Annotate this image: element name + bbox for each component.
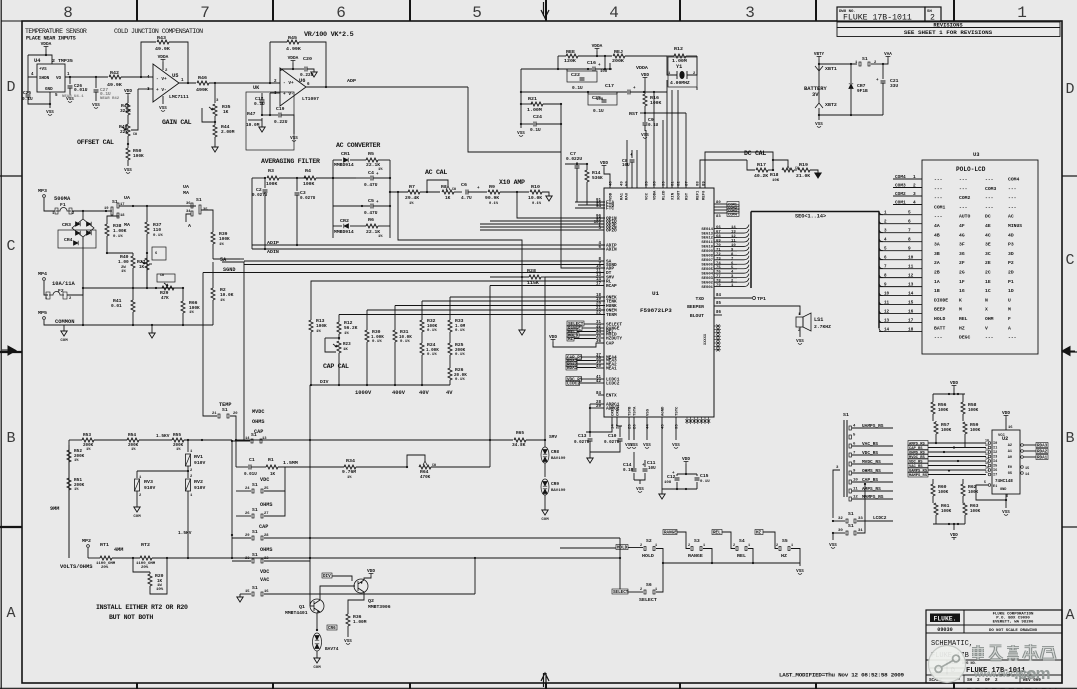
svg-text:DIV: DIV: [323, 574, 331, 579]
svg-text:TSTC: TSTC: [676, 406, 680, 416]
svg-text:OP2O: OP2O: [606, 228, 617, 234]
svg-text:C13: C13: [578, 433, 587, 439]
svg-text:SEG09: SEG09: [701, 250, 713, 254]
svg-text:VDC: VDC: [260, 569, 269, 575]
svg-text:ADIN: ADIN: [267, 249, 279, 255]
svg-text:TP1: TP1: [757, 296, 766, 302]
wire cap row to right: [310, 537, 620, 539]
capacitor C2: [264, 178, 266, 188]
svg-text:24: 24: [245, 487, 250, 491]
svg-text:S1: S1: [252, 482, 258, 488]
svg-text:33: 33: [858, 517, 863, 521]
svg-text:1K: 1K: [270, 472, 276, 477]
svg-text:26: 26: [245, 512, 250, 516]
svg-text:RCAP: RCAP: [606, 283, 617, 289]
svg-text:S1: S1: [862, 56, 868, 62]
U1 right side NC pins crossed: [714, 325, 721, 327]
svg-text:21: 21: [212, 412, 217, 416]
capacitor C22 box: [567, 71, 597, 82]
svg-text:U5: U5: [172, 72, 179, 79]
svg-text:SELECT: SELECT: [613, 590, 629, 595]
svg-text:324K: 324K: [120, 108, 131, 114]
svg-text:10: 10: [884, 292, 890, 297]
S1 pin 11 AMPS_RS: [849, 489, 851, 493]
svg-text:---: ---: [985, 336, 994, 341]
resistor R58: [962, 394, 964, 402]
svg-text:17: 17: [985, 470, 989, 474]
svg-text:1%: 1%: [347, 476, 352, 480]
svg-text:47K: 47K: [161, 296, 169, 301]
svg-text:BLOUT: BLOUT: [690, 313, 704, 319]
wire SA SGND route: [240, 258, 244, 260]
svg-text:FLUKE 17B-1011: FLUKE 17B-1011: [843, 14, 912, 23]
svg-text:VSS: VSS: [1002, 510, 1010, 515]
resistor R66: [182, 288, 184, 301]
vertical line x545 SMV: [544, 277, 546, 440]
svg-text:DIODE: DIODE: [934, 297, 948, 303]
svg-text:13: 13: [985, 452, 989, 456]
ground under rail 2: [151, 325, 153, 333]
svg-text:0.027U: 0.027U: [300, 196, 316, 201]
svg-text:VCC: VCC: [646, 192, 650, 200]
U1 pin HOLD with net label: [596, 333, 604, 335]
svg-text:2D: 2D: [1008, 270, 1014, 276]
svg-text:S1: S1: [252, 507, 258, 513]
svg-text:CR2: CR2: [340, 218, 349, 224]
svg-text:2C: 2C: [985, 270, 991, 276]
svg-text:910V: 910V: [194, 485, 205, 491]
svg-text:14: 14: [884, 328, 890, 333]
ground COM under CR6: [314, 658, 320, 663]
net line VDC_RS to U2: [908, 459, 928, 464]
top margin ruler line: [1, 20, 1062, 22]
svg-text:COM1: COM1: [934, 204, 945, 210]
SEG bus staircase left: [737, 225, 749, 229]
U1 pin ADIP: [600, 244, 604, 246]
svg-text:100K: 100K: [938, 408, 949, 413]
svg-text:MMBT4401: MMBT4401: [285, 610, 308, 616]
svg-text:100K: 100K: [968, 408, 979, 413]
svg-text:CW: CW: [133, 132, 137, 136]
svg-text:0.1U: 0.1U: [530, 127, 541, 133]
svg-text:5: 5: [55, 93, 58, 98]
ground COM under RV3: [134, 507, 140, 512]
junction dots on net lines: [935, 442, 937, 444]
svg-text:71: 71: [716, 248, 721, 252]
svg-text:6: 6: [884, 256, 887, 261]
svg-text:100K: 100K: [303, 181, 314, 187]
svg-text:13: 13: [908, 282, 914, 288]
svg-text:C19: C19: [276, 106, 285, 112]
wire 10A row: [83, 287, 183, 289]
svg-text:MVDC: MVDC: [252, 409, 264, 415]
U2 input pins: [988, 442, 991, 445]
svg-text:RA1: RA1: [621, 192, 625, 200]
svg-text:500MA: 500MA: [54, 195, 71, 202]
resistor R34: [288, 466, 344, 468]
svg-text:0.1%: 0.1%: [455, 378, 465, 382]
svg-text:9.76M: 9.76M: [342, 469, 356, 475]
svg-text:1: 1: [748, 544, 750, 548]
svg-text:1: 1: [913, 174, 916, 180]
svg-text:0.01U: 0.01U: [244, 472, 257, 477]
svg-text:---: ---: [1008, 187, 1017, 192]
U1 pin COM2 net label: [714, 206, 727, 208]
svg-text:910V: 910V: [194, 460, 205, 466]
ground VSS after S5: [799, 563, 801, 566]
node U4 pin2: [45, 54, 47, 56]
svg-text:SEG11: SEG11: [701, 241, 713, 245]
svg-text:100K: 100K: [938, 490, 949, 495]
svg-text:2 TMP35: 2 TMP35: [52, 58, 73, 64]
wire Q1 base: [310, 605, 314, 607]
resistor R32: [421, 301, 423, 320]
svg-text:R12: R12: [674, 46, 683, 52]
svg-text:VSS: VSS: [796, 339, 804, 344]
svg-text:VSS: VSS: [643, 443, 651, 448]
U1 pin MEA2 with net label RDA2: [596, 363, 604, 365]
svg-text:RANGE: RANGE: [664, 531, 677, 536]
svg-text:A: A: [188, 223, 191, 229]
svg-text:COM4: COM4: [728, 213, 738, 217]
svg-text:B: B: [6, 430, 15, 447]
ic U2 74HC148 body: [992, 430, 1020, 494]
svg-text:TXD: TXD: [696, 296, 705, 302]
svg-text:GAIN CAL: GAIN CAL: [162, 118, 192, 126]
wire battery top: [819, 63, 857, 65]
svg-text:0.1%: 0.1%: [113, 235, 123, 239]
svg-text:---: ---: [985, 205, 994, 210]
svg-text:VAC: VAC: [260, 577, 269, 583]
svg-text:---: ---: [1008, 336, 1017, 341]
U1 pin ADPC2: [590, 407, 604, 409]
svg-text:R9: R9: [489, 184, 495, 190]
svg-text:---: ---: [985, 196, 994, 201]
svg-text:6: 6: [908, 219, 911, 225]
svg-text:D: D: [1065, 81, 1074, 98]
wire VDDA to U4 pin2: [46, 49, 52, 64]
svg-text:TENM: TENM: [606, 312, 617, 318]
svg-text:MMBD914: MMBD914: [334, 229, 354, 235]
svg-text:R3: R3: [268, 168, 274, 174]
svg-text:2E: 2E: [985, 260, 991, 266]
net line OHMS_RS to U2: [908, 450, 928, 455]
svg-text:36: 36: [186, 202, 191, 206]
svg-text:SEG02: SEG02: [701, 281, 713, 285]
terminal MP3: [43, 195, 46, 198]
ground in guard box: [261, 118, 263, 127]
svg-text:AGND: AGND: [662, 406, 666, 416]
svg-text:A0: A0: [1008, 456, 1012, 460]
resistor R16: [643, 94, 647, 106]
svg-text:CAP_RS: CAP_RS: [909, 447, 923, 451]
resistor REE: [558, 55, 566, 57]
svg-text:19: 19: [104, 207, 109, 211]
svg-text:SEG04: SEG04: [701, 272, 713, 276]
U3 SEG stub rows: [879, 214, 922, 216]
svg-text:HZ: HZ: [959, 325, 965, 331]
svg-text:8: 8: [908, 237, 911, 243]
svg-text:1%: 1%: [344, 332, 349, 336]
svg-text:SELECT: SELECT: [639, 597, 657, 603]
svg-text:14: 14: [985, 457, 989, 461]
svg-text:0.1%: 0.1%: [532, 202, 542, 206]
U1 pin LCDC1 with net label VDC_RS: [596, 378, 604, 380]
net line AMPS_RS to U2: [908, 441, 928, 446]
wire y438 long: [489, 439, 491, 441]
svg-text:SEG01: SEG01: [701, 286, 713, 290]
svg-text:GND: GND: [1000, 488, 1006, 492]
svg-text:AC CONVERTER: AC CONVERTER: [336, 141, 380, 149]
svg-text:DIV: DIV: [320, 379, 329, 385]
node on CAP_RS: [864, 483, 866, 485]
svg-text:VSS: VSS: [46, 110, 54, 115]
svg-text:100K: 100K: [970, 428, 981, 433]
wire Q1 collector: [320, 586, 355, 600]
net label RDA3 box: [1036, 443, 1048, 448]
U1 pin SMV: [545, 276, 604, 278]
S1 pin 12 MAMPS_RS: [849, 497, 851, 501]
svg-text:R7: R7: [409, 184, 415, 190]
ground COM under common rail: [63, 325, 65, 331]
svg-text:COMMON: COMMON: [55, 318, 75, 325]
diode CR2: [333, 225, 342, 227]
svg-text:49.9K: 49.9K: [155, 46, 170, 52]
svg-text:3C: 3C: [985, 251, 991, 257]
svg-text:10.0K: 10.0K: [528, 195, 542, 201]
svg-text:C10: C10: [608, 433, 617, 439]
svg-text:32: 32: [838, 517, 843, 521]
svg-text:V: V: [985, 325, 988, 331]
wire RST to U1: [685, 113, 687, 188]
svg-text:+VS: +VS: [39, 67, 47, 72]
svg-text:15: 15: [908, 300, 914, 306]
svg-text:SEG05: SEG05: [701, 268, 713, 272]
svg-text:R28: R28: [527, 268, 536, 274]
svg-text:SEG12: SEG12: [701, 237, 713, 241]
svg-text:D: D: [6, 79, 15, 96]
svg-text:1: 1: [1017, 4, 1027, 22]
resistor R33: [449, 297, 451, 320]
svg-text:VDDA: VDDA: [654, 190, 658, 200]
wire 9MM rail: [68, 440, 70, 558]
svg-text:4: 4: [147, 75, 150, 80]
svg-text:C15: C15: [700, 473, 709, 479]
svg-text:5: 5: [472, 4, 482, 22]
svg-text:35: 35: [596, 335, 601, 339]
svg-text:14: 14: [908, 291, 914, 297]
svg-text:12: 12: [985, 448, 989, 452]
svg-text:X: X: [985, 307, 988, 313]
svg-text:S6: S6: [646, 582, 652, 588]
svg-text:0.1%: 0.1%: [153, 234, 163, 238]
svg-text:---: ---: [959, 205, 968, 210]
svg-text:68: 68: [716, 235, 721, 239]
svg-text:R19: R19: [799, 162, 808, 168]
svg-text:1G: 1G: [959, 288, 965, 294]
U1 pin SGND: [244, 264, 604, 266]
svg-text:LMC7111: LMC7111: [169, 94, 189, 100]
svg-text:MA: MA: [124, 222, 130, 228]
U1 pin FTB: [578, 204, 604, 206]
svg-text:LS1: LS1: [814, 317, 823, 323]
svg-text:---: ---: [934, 336, 943, 341]
svg-text:HOLD: HOLD: [642, 553, 654, 559]
svg-text:0.1U: 0.1U: [22, 96, 33, 102]
svg-text:CW: CW: [160, 273, 164, 277]
svg-text:34.8K: 34.8K: [512, 442, 526, 448]
svg-text:72: 72: [716, 253, 721, 257]
svg-text:DO NOT SCALE DRAWING: DO NOT SCALE DRAWING: [989, 629, 1038, 633]
wire R49 wiper to U5: [131, 105, 138, 130]
svg-text:R21: R21: [528, 96, 537, 102]
svg-text:17: 17: [596, 283, 601, 287]
svg-text:AVERAGING FILTER: AVERAGING FILTER: [261, 157, 320, 165]
svg-text:MVDC_RS: MVDC_RS: [909, 456, 926, 460]
svg-text:SEG10: SEG10: [701, 246, 713, 250]
svg-text:P1: P1: [1008, 279, 1014, 285]
svg-text:9: 9: [908, 246, 911, 252]
svg-text:VSS: VSS: [344, 639, 352, 644]
resistor R20: [133, 558, 150, 572]
svg-text:SEG03: SEG03: [701, 277, 713, 281]
wire ADIP line: [252, 244, 605, 246]
wire DIV rail: [310, 384, 450, 386]
U1 pin BEEPER: [714, 306, 800, 315]
resistor R27 pot: [146, 255, 148, 258]
svg-text:LAST_MODIFIED=Thu Nov 12 08:52: LAST_MODIFIED=Thu Nov 12 08:52:58 2009: [779, 672, 905, 679]
svg-text:9F1B: 9F1B: [857, 88, 868, 94]
svg-text:1%: 1%: [189, 311, 194, 315]
svg-text:BEEP: BEEP: [934, 307, 945, 313]
svg-text:3E: 3E: [985, 242, 991, 248]
svg-text:HOLD: HOLD: [934, 316, 945, 322]
svg-text:56.2K: 56.2K: [344, 325, 358, 331]
svg-text:1%: 1%: [131, 448, 136, 452]
svg-text:VSS: VSS: [92, 103, 100, 108]
svg-text:RA0: RA0: [626, 192, 630, 200]
svg-text:2B: 2B: [934, 270, 940, 276]
wire U4 pin5 to VSS: [49, 92, 51, 108]
wire converter output: [390, 191, 408, 193]
svg-text:VDDA: VDDA: [636, 65, 648, 71]
svg-text:89: 89: [703, 181, 707, 186]
wire ADP long route: [468, 87, 561, 152]
svg-text:CR9: CR9: [551, 481, 559, 487]
svg-text:COM4: COM4: [1008, 177, 1019, 183]
diode CR6 dual: [327, 625, 337, 630]
wire C16 net down to U1: [560, 104, 562, 152]
svg-text:RDA2: RDA2: [1037, 450, 1048, 455]
S1 pin 5 nc: [849, 435, 851, 439]
ground left of S1 15: [239, 594, 241, 597]
ground under C20: [311, 72, 317, 77]
svg-text:470K: 470K: [420, 475, 431, 480]
svg-text:2G: 2G: [959, 270, 965, 276]
svg-text:1: 1: [791, 544, 793, 548]
svg-text:RDA3: RDA3: [1037, 444, 1048, 449]
ground after R19: [815, 173, 821, 178]
resistor R62: [962, 479, 964, 484]
svg-text:F1: F1: [60, 202, 66, 208]
U1 pin TENK: [422, 300, 604, 302]
svg-text:COM3: COM3: [895, 183, 906, 189]
svg-text:I3: I3: [993, 456, 997, 460]
svg-text:C5: C5: [368, 198, 374, 204]
U1 pin ONEK: [450, 296, 604, 298]
wire U6 inputs: [215, 82, 280, 84]
speaker LS1: [796, 317, 803, 327]
wire TSTB TSTA VSS AGND TSTC to VSS: [628, 417, 630, 440]
U1 pin REL with net label: [596, 330, 604, 332]
bottom center fold arrow: [541, 673, 549, 687]
wire network top rail: [933, 393, 965, 395]
svg-text:SGND: SGND: [223, 267, 235, 273]
svg-text:1K: 1K: [343, 348, 348, 352]
svg-text:EVERETT, WA 98206: EVERETT, WA 98206: [993, 621, 1034, 625]
net label RDA2 box: [1036, 449, 1048, 454]
svg-text:VR/100 VK*2.5: VR/100 VK*2.5: [304, 31, 354, 39]
diode CR9 dual: [541, 479, 549, 495]
svg-text:100K: 100K: [316, 323, 327, 329]
svg-text:4.7U: 4.7U: [461, 195, 472, 201]
U2 pin E1: [988, 484, 991, 487]
svg-text:S1: S1: [848, 523, 854, 529]
svg-text:1%: 1%: [176, 448, 181, 452]
resistor R52: [68, 445, 70, 450]
resistor R35 gain cal pot: [214, 83, 216, 103]
svg-text:+: +: [598, 63, 601, 68]
svg-text:X10 AMP: X10 AMP: [499, 178, 525, 186]
svg-text:VO: VO: [56, 76, 62, 81]
svg-text:75: 75: [716, 266, 721, 270]
wire FTC: [582, 207, 605, 209]
svg-text:U1: U1: [652, 290, 660, 297]
svg-text:CAP: CAP: [606, 341, 614, 347]
svg-text:XOUT: XOUT: [678, 190, 682, 200]
svg-text:LT1097: LT1097: [302, 96, 319, 102]
svg-text:MP3: MP3: [38, 188, 47, 194]
svg-text:OFFSET CAL: OFFSET CAL: [77, 138, 114, 146]
svg-text:U3: U3: [973, 151, 980, 158]
svg-text:11: 11: [985, 443, 989, 447]
wire RST: [644, 106, 646, 122]
S1 pin 6 VAC_RS: [849, 444, 851, 448]
svg-text:CRES2: CRES2: [617, 404, 621, 416]
svg-text:XBT1: XBT1: [825, 66, 837, 72]
U1 pin SELECT with net label: [596, 323, 604, 325]
net line VAC_RS to U2: [908, 463, 928, 468]
svg-text:+: +: [376, 172, 379, 177]
svg-text:29.4K: 29.4K: [405, 195, 419, 201]
svg-text:10: 10: [596, 265, 601, 269]
microcontroller U1 body: [604, 188, 714, 417]
net label HOLD box: [616, 545, 628, 550]
svg-text:A2: A2: [1008, 444, 1012, 448]
svg-text:1C: 1C: [985, 288, 991, 294]
net line MVDC_RS to U2: [908, 454, 928, 459]
svg-text:RANGE: RANGE: [688, 553, 703, 559]
U1 pin FTC: [575, 207, 604, 209]
svg-text:Y1: Y1: [676, 64, 682, 70]
svg-text:6: 6: [336, 4, 346, 22]
svg-text:499K: 499K: [196, 87, 208, 93]
svg-text:RT1: RT1: [100, 542, 109, 548]
ground after R10: [546, 196, 552, 201]
ground VSS of guard box: [293, 130, 295, 134]
svg-text:R18: R18: [770, 172, 779, 178]
wire U4 left loop: [28, 54, 46, 56]
